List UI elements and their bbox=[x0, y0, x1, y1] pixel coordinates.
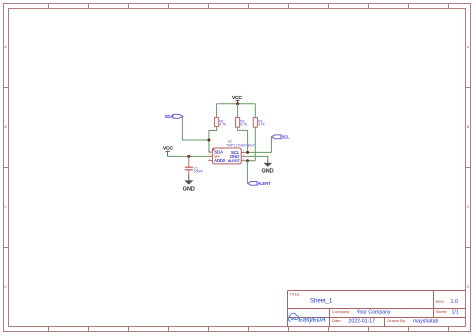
svg-text:mayshatab: mayshatab bbox=[413, 318, 438, 324]
wire: SCL pin to flag bbox=[245, 137, 271, 153]
svg-text:ALERT: ALERT bbox=[258, 181, 272, 186]
net flag ALERT bbox=[248, 181, 272, 186]
Company label bbox=[332, 309, 350, 314]
title label bbox=[290, 293, 301, 297]
resistor R2 bbox=[236, 117, 248, 127]
wire: VCC top rail bbox=[217, 103, 256, 105]
wire: ALERT to flag bbox=[246, 161, 248, 184]
node: SCL junction bbox=[246, 151, 249, 154]
left zone letters A B C D bbox=[4, 45, 7, 289]
node: junction C1/VCC bbox=[187, 155, 190, 158]
pin 6 SCL bbox=[231, 150, 245, 155]
Date label bbox=[332, 318, 342, 323]
Drawn By label bbox=[388, 318, 406, 323]
pin 3 ADD0 bbox=[208, 158, 225, 163]
power flag VCC left bbox=[163, 146, 174, 157]
pin 4 ALERT bbox=[228, 158, 246, 163]
svg-text:Drawn By:: Drawn By: bbox=[388, 318, 406, 323]
Company value bbox=[357, 309, 392, 315]
svg-text:TITLE:: TITLE: bbox=[290, 293, 301, 297]
svg-text:GND: GND bbox=[183, 186, 195, 192]
resistor R3 bbox=[253, 117, 265, 127]
wire: VCC to V+ pin bbox=[168, 155, 209, 157]
pin 2 V+ bbox=[208, 154, 220, 159]
svg-text:SDA: SDA bbox=[165, 114, 174, 119]
svg-text:100nF: 100nF bbox=[194, 169, 203, 173]
wire: ALERT pin to R3 bbox=[245, 160, 255, 162]
capacitor C1 bbox=[185, 156, 203, 174]
svg-text:EasyEDA: EasyEDA bbox=[299, 317, 327, 324]
Date value bbox=[349, 318, 376, 324]
resistor R1 bbox=[215, 117, 228, 126]
sheet name value bbox=[310, 299, 333, 305]
svg-text:2022-01-17: 2022-01-17 bbox=[349, 318, 376, 324]
svg-text:D: D bbox=[467, 285, 470, 289]
svg-text:C: C bbox=[467, 205, 470, 209]
ground GND under C1 bbox=[183, 175, 195, 193]
svg-text:Date:: Date: bbox=[332, 318, 342, 323]
EasyEDA logo text bbox=[299, 317, 327, 324]
svg-text:VCC: VCC bbox=[232, 95, 243, 100]
wire: R1 top bbox=[216, 104, 218, 118]
node: SDA junction bbox=[207, 139, 210, 142]
bottom edge ticks bbox=[49, 327, 449, 332]
wire: SDA label to junction bbox=[182, 116, 209, 140]
EasyEDA logo cloud bbox=[288, 313, 298, 321]
ground GND right bbox=[262, 159, 274, 174]
Drawn By value bbox=[413, 318, 438, 324]
svg-text:Your Company: Your Company bbox=[357, 309, 392, 315]
REV label bbox=[436, 299, 445, 304]
Sheet label bbox=[436, 309, 448, 314]
wire: R2 top bbox=[237, 104, 239, 118]
svg-text:C: C bbox=[4, 205, 7, 209]
top edge ticks bbox=[49, 4, 449, 9]
net flag SDA bbox=[165, 114, 183, 119]
power flag VCC top bbox=[232, 95, 243, 104]
wire: R3 top bbox=[254, 104, 256, 118]
left edge ticks bbox=[4, 88, 9, 248]
svg-text:REV:: REV: bbox=[436, 299, 445, 304]
wire: R1 bottom to SDA pin bbox=[209, 127, 217, 153]
wire: R2 bottom to SCL net bbox=[238, 127, 248, 152]
svg-text:D: D bbox=[4, 285, 7, 289]
REV value 1.0 bbox=[451, 299, 459, 305]
net flag SCL bbox=[271, 135, 290, 140]
wire: GND pin to ground bbox=[245, 156, 267, 159]
svg-text:4.7K: 4.7K bbox=[220, 123, 228, 127]
svg-text:Sheet_1: Sheet_1 bbox=[310, 299, 333, 305]
right zone letters A B C D bbox=[467, 45, 470, 289]
svg-text:Company:: Company: bbox=[332, 309, 350, 314]
svg-text:SCL: SCL bbox=[282, 135, 291, 140]
node: junction VCC rail bbox=[236, 102, 239, 105]
svg-text:ADD0: ADD0 bbox=[214, 158, 225, 163]
IC U1 TMP117NAIYBGT bbox=[212, 140, 255, 164]
pin 5 GND bbox=[230, 154, 245, 159]
title block frame bbox=[288, 291, 466, 327]
node: ALERT junction bbox=[246, 159, 249, 162]
Sheet value 1/1 bbox=[452, 309, 459, 315]
svg-text:1/1: 1/1 bbox=[452, 309, 459, 315]
svg-text:4.7K: 4.7K bbox=[240, 123, 248, 127]
right edge ticks bbox=[466, 88, 471, 248]
svg-text:ALERT: ALERT bbox=[228, 158, 241, 163]
pin 1 SDA bbox=[208, 150, 223, 155]
wire: R3 bottom bbox=[254, 127, 256, 161]
svg-text:TMP117NAIYBGT: TMP117NAIYBGT bbox=[226, 144, 255, 148]
svg-text:GND: GND bbox=[262, 168, 274, 174]
svg-text:VCC: VCC bbox=[163, 146, 174, 151]
svg-text:1.0: 1.0 bbox=[451, 299, 459, 305]
svg-text:4.7K: 4.7K bbox=[258, 123, 266, 127]
svg-text:Sheet:: Sheet: bbox=[436, 309, 448, 314]
